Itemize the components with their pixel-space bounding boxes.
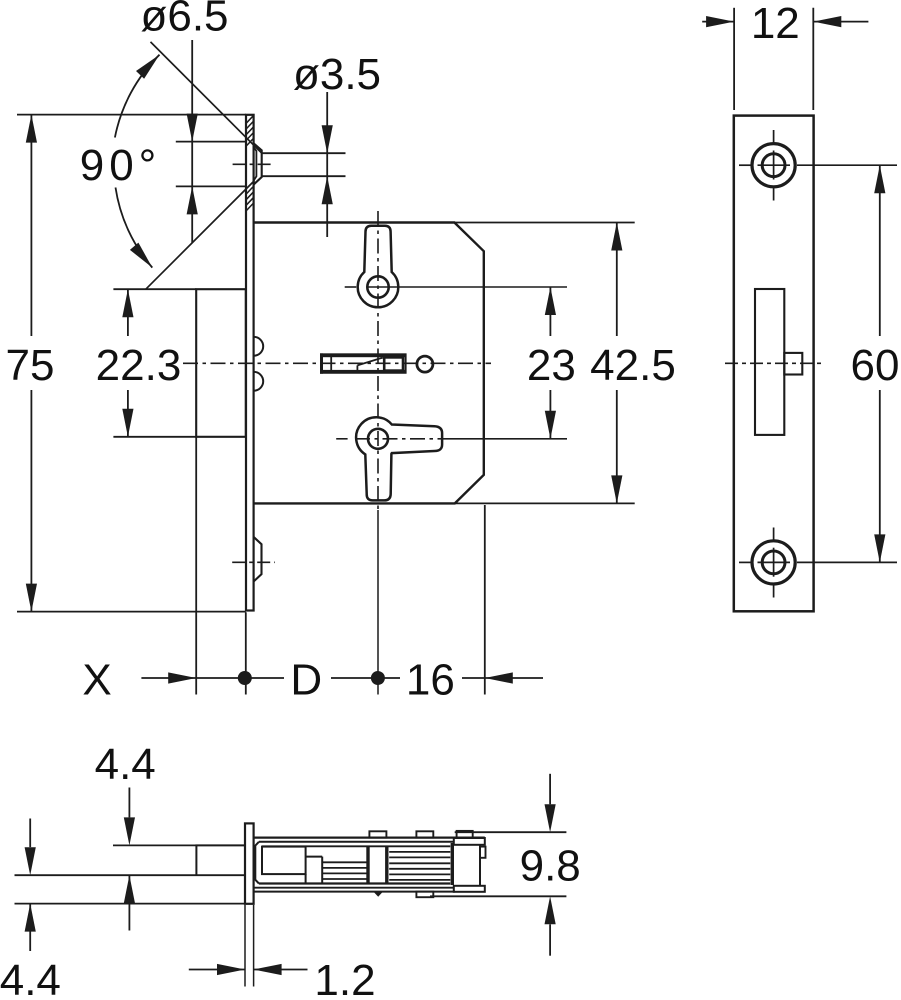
key bit inner divider — [330, 357, 332, 371]
reference dot spindle — [371, 671, 385, 685]
dimension line 1.2 right tail — [254, 969, 308, 971]
hatch below countersink — [247, 187, 254, 194]
extension line 1.2 left — [244, 905, 246, 987]
bottom knob inner circle — [368, 429, 388, 449]
dimension line 16 — [462, 677, 543, 679]
countersink cone inner edge — [254, 147, 257, 180]
svg-text:1.2: 1.2 — [314, 956, 375, 1000]
end cap right edge — [479, 845, 481, 886]
body mid bottom edge — [254, 887, 454, 889]
latch tab — [784, 353, 802, 375]
centerline tick bottom knob — [336, 438, 347, 440]
box B right — [321, 857, 323, 884]
arrowhead angle lower — [130, 243, 152, 268]
extension line faceplate — [245, 612, 247, 694]
turn knob bottom — [356, 417, 442, 500]
spindle bar left — [366, 846, 369, 883]
key bit diagonal foot — [356, 365, 358, 370]
screw hole top inner — [762, 154, 785, 177]
latch roller bump upper — [254, 337, 263, 356]
dimension line 12 right tail — [813, 21, 868, 23]
bottom tab — [416, 892, 433, 898]
arrowhead 9.8 lower — [545, 896, 556, 924]
arrowhead 60 top — [874, 165, 885, 193]
key bit right block — [384, 357, 403, 370]
fixing hole beside key bit — [417, 356, 433, 372]
arrowhead o6.5 lower — [187, 186, 198, 214]
svg-text:4.4: 4.4 — [0, 956, 61, 1000]
dimension line o3.5 upper — [326, 92, 328, 153]
latch roller bump lower — [254, 372, 263, 391]
key bit diagonal — [357, 358, 382, 366]
arrowhead 23 bottom — [545, 411, 556, 439]
hatch top faceplate section — [247, 116, 254, 123]
centerline top screw hole — [233, 163, 275, 165]
centerline bottom hole horizontal + 60 extension — [739, 561, 751, 563]
dimension line 75 — [30, 115, 32, 336]
screw hole top outer — [752, 144, 795, 187]
box B top — [306, 856, 323, 858]
svg-text:ø3.5: ø3.5 — [293, 50, 381, 99]
arrowhead o6.5 upper — [187, 114, 198, 142]
arrowhead 4.4 bottom lower — [25, 904, 36, 932]
key bit slot — [321, 354, 406, 372]
screw hole bottom outer — [752, 541, 795, 584]
countersink cone line upper — [151, 42, 263, 153]
rail top edge — [15, 874, 246, 876]
dimension line 22.3 — [127, 289, 129, 336]
top tab 2 — [416, 831, 433, 837]
spindle bar right — [385, 846, 388, 883]
faceplate bottom view — [245, 823, 254, 903]
extension line case left — [195, 438, 197, 695]
extension line o3.5 bottom — [262, 175, 346, 177]
end divider bar — [451, 843, 454, 885]
dimension line o6.5 upper — [191, 40, 193, 142]
centerline bottom knob arm — [355, 438, 442, 440]
dimension line 4.4 top tail — [128, 788, 130, 818]
dimension line X — [141, 677, 196, 679]
svg-text:16: 16 — [406, 656, 455, 705]
arrowhead angle upper — [136, 55, 160, 79]
end cap small tab — [480, 847, 486, 858]
top tab end cap — [457, 831, 473, 838]
screw boss bottom — [254, 537, 262, 582]
svg-text:42.5: 42.5 — [590, 341, 676, 390]
box B left lower — [305, 874, 307, 883]
svg-text:ø6.5: ø6.5 — [140, 0, 228, 41]
extension line 12 right — [812, 8, 814, 110]
extension line o6.5 top — [176, 141, 246, 143]
dimension line D-16 — [331, 677, 400, 679]
extension line 12 left — [733, 8, 735, 110]
faceplate front view — [734, 116, 814, 612]
svg-text:12: 12 — [751, 0, 800, 48]
top tab 1 — [369, 831, 386, 837]
arrowhead 75 top — [26, 115, 37, 143]
dimension line 4.4 bottom tail — [29, 819, 31, 848]
body nose chamfer — [255, 842, 259, 884]
extension line 4.4 top — [113, 844, 196, 846]
faceplate cross-section — [246, 115, 254, 611]
turn knob top — [358, 226, 399, 307]
extension line body right — [484, 505, 486, 695]
spring pack stripes left — [322, 861, 366, 863]
centerline tick top knob — [345, 286, 357, 288]
arrowhead 1.2 left — [217, 964, 245, 975]
extension line bottom knob — [442, 438, 567, 440]
internals bottom edge — [259, 882, 450, 884]
end cap top flange — [454, 838, 485, 845]
extension line top knob — [367, 286, 567, 288]
arrowhead 42.5 bottom — [611, 475, 622, 503]
internals top edge — [262, 845, 450, 847]
arrowhead 1.2 right — [254, 964, 282, 975]
lock body outline — [254, 223, 484, 504]
dimension line X-D — [196, 677, 284, 679]
arrowhead 75 bottom — [26, 584, 37, 612]
svg-text:9.8: 9.8 — [520, 842, 581, 891]
extension line bottom (75) — [17, 611, 246, 613]
svg-text:60: 60 — [851, 341, 900, 390]
extension line top (22.3) — [113, 288, 196, 290]
lock case behind faceplate — [196, 289, 246, 437]
svg-text:4.4: 4.4 — [95, 740, 156, 789]
dimension line 9.8 upper tail — [549, 774, 551, 805]
arrowhead 42.5 top — [611, 223, 622, 251]
reference dot faceplate — [238, 671, 252, 685]
svg-text:75: 75 — [6, 341, 55, 390]
arrowhead o3.5 upper — [322, 125, 333, 153]
screw hole bottom inner — [762, 551, 785, 574]
arrowhead 22.3 top — [122, 289, 133, 317]
centerline top hole horizontal + 60 extension — [739, 164, 751, 166]
spring pack stripes right — [389, 851, 450, 853]
dimension line 12 left tail — [702, 21, 734, 23]
bottom pointer triangle — [374, 892, 383, 897]
top knob inner circle — [367, 276, 388, 297]
arrowhead 23 top — [545, 287, 556, 315]
centerline bottom hole vertical — [773, 528, 775, 540]
case protrusion bottom view — [196, 845, 245, 875]
svg-text:X: X — [82, 656, 111, 705]
arrowhead 4.4 top lower — [124, 875, 135, 903]
extension line 42.5 top — [454, 222, 634, 224]
arrowhead 60 bottom — [874, 534, 885, 562]
countersink cone line lower — [146, 181, 255, 290]
dimension line 42.5 — [616, 223, 618, 337]
angle arc lower — [116, 188, 153, 268]
arrowhead 4.4 bottom upper — [25, 847, 36, 875]
dimension line 60 upper — [879, 165, 881, 336]
extension line 1.2 right — [253, 905, 255, 987]
arrowhead X — [168, 672, 196, 683]
extension line 9.8 bottom — [430, 895, 566, 897]
rail bottom edge — [15, 903, 246, 905]
dimension line 23 — [549, 287, 551, 336]
svg-text:22.3: 22.3 — [96, 341, 182, 390]
countersunk screw boss top — [254, 143, 262, 184]
extension line bottom (22.3) — [113, 436, 196, 438]
body outer top edge — [254, 836, 485, 838]
extension line top (75) — [17, 114, 246, 116]
centerline vertical spindle axis — [377, 211, 379, 510]
centerline horizontal main axis — [183, 362, 491, 364]
svg-text:90°: 90° — [80, 141, 162, 190]
latch slot — [755, 289, 784, 435]
dimension line 1.2 left tail — [189, 969, 245, 971]
centerline latch tab — [725, 362, 823, 364]
arrowhead o3.5 lower — [322, 176, 333, 204]
arrowhead 16 — [485, 672, 513, 683]
angle arc upper — [115, 55, 160, 138]
centerline top hole vertical — [773, 130, 775, 142]
svg-text:23: 23 — [527, 341, 576, 390]
extension line 42.5 bottom — [455, 502, 635, 504]
svg-text:D: D — [290, 656, 322, 705]
body mid top edge — [259, 841, 454, 843]
arrowhead 4.4 top upper — [124, 817, 135, 845]
centerline bottom screw hole — [232, 561, 275, 563]
follower box A — [262, 847, 306, 875]
arrowhead 9.8 upper — [545, 804, 556, 832]
body outer bottom edge — [254, 891, 455, 893]
arrowhead 12 left — [706, 16, 734, 27]
end cap bottom flange — [454, 886, 485, 892]
extension line o6.5 bottom — [176, 185, 246, 187]
arrowhead 12 right — [813, 16, 841, 27]
extension line spindle to dim row — [377, 510, 379, 695]
extension line o3.5 top — [262, 152, 346, 154]
arrowhead 22.3 bottom — [122, 409, 133, 437]
extension line 9.8 top — [455, 831, 567, 833]
